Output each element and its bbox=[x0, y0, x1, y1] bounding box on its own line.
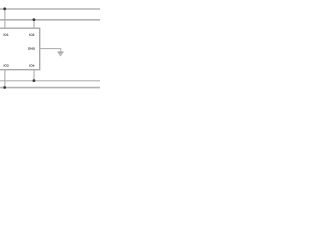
junction dot: IO3 / bottom bus line 2 bbox=[3, 86, 6, 89]
IC U1 (box clipped at left edge of image) bbox=[0, 28, 40, 69]
wire: bottom bus line 1 bbox=[0, 80, 100, 82]
wire: pin IO2 up to top bus line 2 bbox=[33, 20, 35, 28]
pin label IO2 bbox=[30, 34, 35, 36]
wire: pin IO3 down to bottom bus line 2 bbox=[4, 70, 6, 88]
pin label IO4 bbox=[30, 64, 35, 66]
junction dot: IO1 / top bus line 1 bbox=[3, 7, 6, 10]
junction dot: IO2 / top bus line 2 bbox=[33, 18, 36, 21]
ground bbox=[58, 52, 64, 56]
wire: bottom bus line 2 bbox=[0, 87, 100, 89]
wire: GND pin to ground symbol bbox=[40, 49, 61, 52]
pin label IO3 bbox=[4, 64, 9, 66]
pin label GND bbox=[28, 47, 35, 49]
junction dot: IO4 / bottom bus line 1 bbox=[33, 79, 36, 82]
wire: top bus line 2 bbox=[0, 19, 100, 21]
wire: top bus line 1 bbox=[0, 8, 100, 10]
wire: pin IO1 up to top bus line 1 bbox=[4, 9, 6, 28]
wire: pin IO4 down to bottom bus line 1 bbox=[33, 70, 35, 81]
pin label IO1 bbox=[4, 34, 9, 36]
